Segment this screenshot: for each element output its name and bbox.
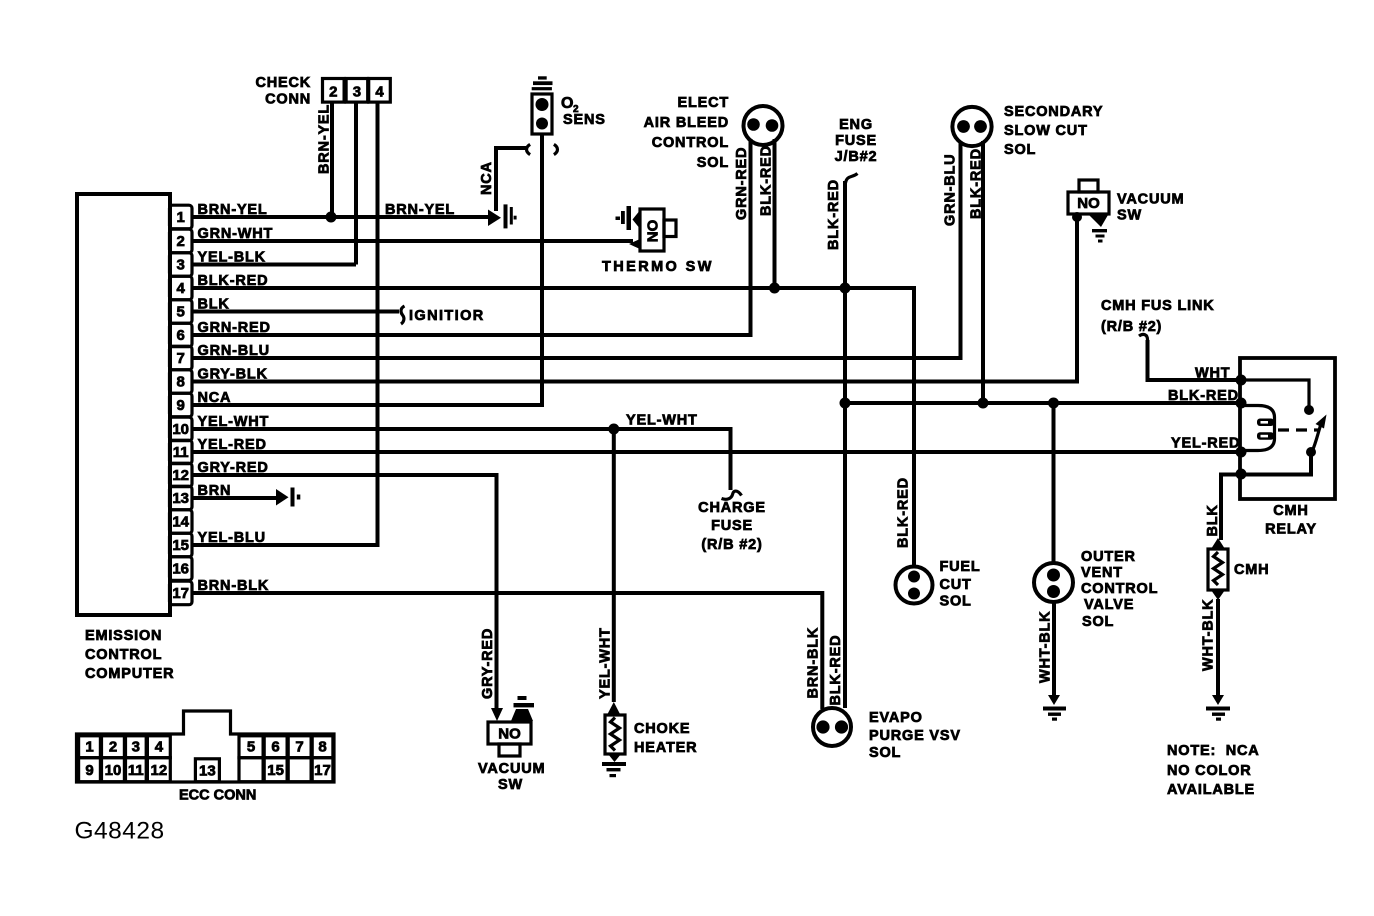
svg-text:CONTROL: CONTROL [1081,581,1158,597]
svg-text:16: 16 [172,561,189,578]
svg-text:CONTROL: CONTROL [652,135,729,151]
svg-text:NCA: NCA [479,161,495,195]
svg-text:ECC CONN: ECC CONN [179,788,256,804]
svg-text:(R/B #2): (R/B #2) [1101,319,1162,335]
svg-text:3: 3 [132,739,140,756]
svg-text:2: 2 [329,84,337,101]
svg-text:BRN-BLK: BRN-BLK [806,627,822,699]
svg-text:AIR BLEED: AIR BLEED [644,115,729,131]
svg-text:EMISSION: EMISSION [85,628,162,644]
svg-text:CMH: CMH [1234,562,1269,578]
svg-text:G48428: G48428 [75,818,165,845]
svg-text:IGNITIOR: IGNITIOR [409,308,485,324]
svg-text:5: 5 [247,739,255,756]
svg-text:SENS: SENS [563,112,606,128]
svg-text:YEL-RED: YEL-RED [1171,436,1240,452]
svg-text:VACUUM: VACUUM [478,761,545,777]
svg-text:BLK-RED: BLK-RED [896,477,912,548]
svg-text:VALVE: VALVE [1084,597,1134,613]
svg-text:1: 1 [177,209,185,226]
svg-text:13: 13 [199,763,216,780]
svg-text:YEL-WHT: YEL-WHT [626,413,698,429]
svg-text:PURGE VSV: PURGE VSV [869,728,961,744]
svg-text:4: 4 [155,739,164,756]
svg-text:YEL-WHT: YEL-WHT [598,627,614,699]
svg-text:2: 2 [109,739,117,756]
svg-text:8: 8 [177,374,185,391]
svg-text:BLK-RED: BLK-RED [828,635,844,706]
svg-text:THERMO SW: THERMO SW [602,259,714,275]
svg-text:J/B#2: J/B#2 [835,149,878,165]
svg-text:11: 11 [173,444,189,461]
svg-text:VACUUM: VACUUM [1117,192,1184,208]
svg-text:CHOKE: CHOKE [634,721,690,737]
svg-text:AVAILABLE: AVAILABLE [1167,782,1255,798]
svg-text:SW: SW [498,777,523,793]
svg-text:3: 3 [353,84,361,101]
svg-text:BLK: BLK [1205,504,1221,536]
svg-text:9: 9 [177,397,185,414]
svg-text:CMH: CMH [1273,503,1308,519]
svg-text:BLK-RED: BLK-RED [826,179,842,250]
svg-text:13: 13 [172,490,189,507]
svg-text:COMPUTER: COMPUTER [85,666,174,682]
svg-text:3: 3 [177,257,185,274]
svg-text:CONTROL: CONTROL [85,647,162,663]
svg-text:NO COLOR: NO COLOR [1167,763,1252,779]
svg-text:SOL: SOL [697,155,729,171]
svg-text:17: 17 [314,762,331,779]
svg-text:11: 11 [128,762,144,779]
svg-text:9: 9 [85,762,93,779]
svg-text:SOL: SOL [1082,614,1114,630]
svg-text:BRN-YEL: BRN-YEL [385,202,455,218]
svg-text:CHARGE: CHARGE [698,500,766,516]
svg-text:GRN-BLU: GRN-BLU [943,154,959,226]
svg-text:5: 5 [177,304,185,321]
svg-text:12: 12 [172,467,189,484]
svg-text:17: 17 [172,585,189,602]
svg-text:SECONDARY: SECONDARY [1004,104,1103,120]
svg-text:GRY-RED: GRY-RED [480,628,496,699]
svg-text:CUT: CUT [940,577,972,593]
svg-text:CMH FUS LINK: CMH FUS LINK [1101,298,1215,314]
svg-text:NO: NO [645,219,662,242]
svg-text:NO: NO [1077,195,1100,212]
svg-text:15: 15 [267,762,284,779]
svg-text:1: 1 [85,739,93,756]
svg-text:12: 12 [151,762,168,779]
svg-text:(R/B #2): (R/B #2) [701,537,762,553]
svg-text:FUEL: FUEL [940,559,981,575]
svg-text:4: 4 [375,84,384,101]
svg-text:14: 14 [172,514,189,531]
svg-text:WHT: WHT [1195,366,1230,382]
svg-text:BRN-YEL: BRN-YEL [317,104,333,174]
svg-text:15: 15 [172,537,189,554]
svg-text:SLOW CUT: SLOW CUT [1004,123,1088,139]
svg-text:CONN: CONN [265,92,311,108]
svg-text:10: 10 [172,421,189,438]
svg-text:7: 7 [295,739,303,756]
svg-text:HEATER: HEATER [634,740,697,756]
svg-text:O: O [561,95,573,112]
svg-text:RELAY: RELAY [1265,522,1317,538]
svg-text:SOL: SOL [869,745,901,761]
svg-text:WHT-BLK: WHT-BLK [1038,611,1054,683]
svg-text:6: 6 [271,739,279,756]
svg-text:BLK-RED: BLK-RED [759,145,775,216]
svg-text:10: 10 [105,762,122,779]
svg-text:NO: NO [498,726,521,743]
svg-text:6: 6 [177,327,185,344]
svg-text:BLK-RED: BLK-RED [1168,388,1239,404]
svg-text:FUSE: FUSE [711,518,753,534]
svg-text:BLK-RED: BLK-RED [969,148,985,219]
svg-text:ENG: ENG [839,117,873,133]
svg-text:EVAPO: EVAPO [869,710,923,726]
svg-text:SOL: SOL [1004,142,1036,158]
svg-text:FUSE: FUSE [835,133,877,149]
svg-text:NOTE: NCA: NOTE: NCA [1167,743,1260,759]
svg-text:4: 4 [177,280,186,297]
svg-text:CHECK: CHECK [255,75,311,91]
svg-text:OUTER: OUTER [1081,549,1136,565]
svg-text:SOL: SOL [940,594,972,610]
svg-text:7: 7 [177,350,185,367]
svg-text:GRN-RED: GRN-RED [734,147,750,220]
svg-text:VENT: VENT [1081,565,1123,581]
svg-text:ELECT: ELECT [677,95,729,111]
svg-text:WHT-BLK: WHT-BLK [1201,599,1217,671]
svg-text:SW: SW [1117,208,1142,224]
svg-text:2: 2 [177,233,185,250]
svg-text:8: 8 [318,739,326,756]
